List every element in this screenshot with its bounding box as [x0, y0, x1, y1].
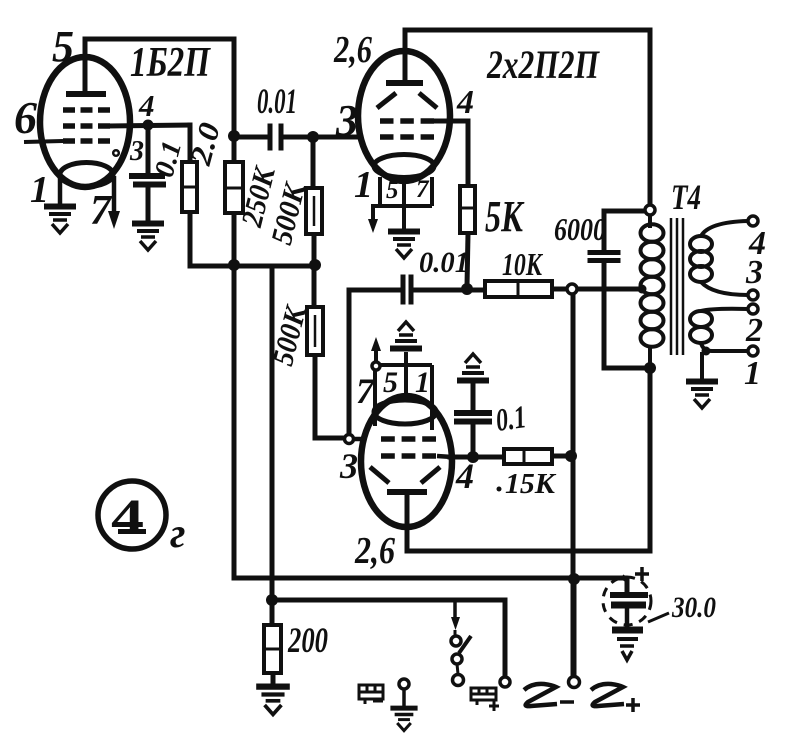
svg-text:5: 5: [383, 366, 398, 399]
svg-text:30.0: 30.0: [671, 591, 716, 624]
svg-text:Т4: Т4: [671, 177, 701, 217]
svg-text:2х2П2П: 2х2П2П: [486, 42, 600, 87]
svg-text:3: 3: [335, 96, 358, 145]
svg-text:10К: 10К: [502, 246, 544, 282]
svg-text:200: 200: [287, 620, 328, 660]
svg-text:7: 7: [416, 176, 430, 203]
svg-text:0.1: 0.1: [494, 398, 529, 438]
svg-text:3: 3: [745, 254, 763, 291]
svg-text:2: 2: [745, 312, 763, 349]
svg-text:1: 1: [744, 355, 761, 392]
svg-text:1Б2П: 1Б2П: [130, 40, 211, 86]
svg-text:3: 3: [129, 136, 144, 167]
svg-text:1: 1: [354, 164, 373, 206]
svg-text:г: г: [170, 511, 186, 557]
svg-text:4: 4: [138, 88, 155, 123]
svg-text:15К: 15К: [505, 469, 557, 500]
svg-text:2,6: 2,6: [333, 29, 372, 71]
svg-text:1: 1: [30, 169, 49, 211]
svg-text:4: 4: [111, 489, 144, 545]
svg-text:5: 5: [52, 22, 74, 71]
svg-text:7: 7: [356, 371, 376, 411]
svg-text:6: 6: [14, 92, 37, 143]
svg-text:2,6: 2,6: [354, 530, 395, 572]
svg-text:3: 3: [339, 446, 358, 486]
svg-text:5: 5: [386, 177, 399, 204]
svg-text:1: 1: [415, 366, 430, 399]
svg-text:5К: 5К: [485, 192, 525, 241]
svg-text:0.01: 0.01: [419, 246, 469, 279]
svg-text:7: 7: [90, 188, 113, 234]
svg-text:4: 4: [456, 84, 474, 121]
svg-text:0.01: 0.01: [257, 81, 297, 121]
svg-text:6000: 6000: [554, 211, 606, 247]
svg-text:4: 4: [455, 456, 474, 496]
